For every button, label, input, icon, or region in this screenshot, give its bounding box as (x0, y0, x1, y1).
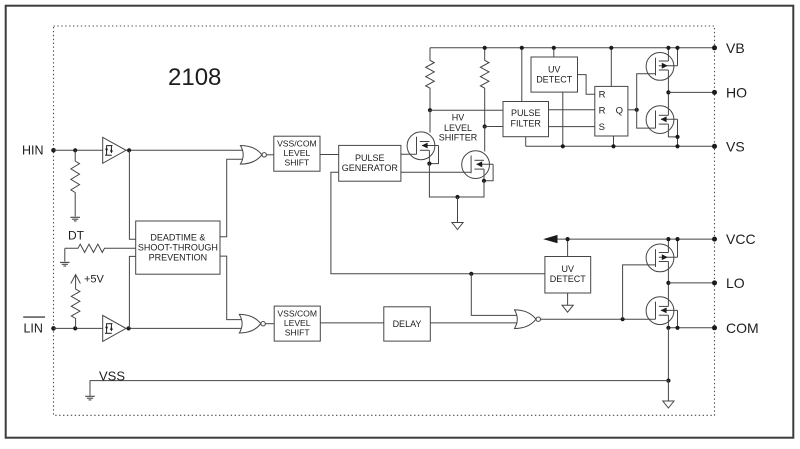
wire pulse filter to VS rail (525, 137, 527, 147)
wire Q1 drain (429, 110, 431, 132)
svg-text:+5V: +5V (84, 274, 105, 286)
junction LIN buffer output node (127, 326, 131, 330)
wire COM to VSS junction (667, 328, 669, 381)
junction Q1 source node (427, 162, 431, 166)
wire DT ground stub (64, 248, 66, 261)
wire pulse filter to latch S (549, 126, 595, 128)
ground (DT) (60, 262, 70, 266)
junction HIN buffer output node (127, 148, 131, 152)
wire common source ground stem (457, 197, 459, 223)
wire HO output (668, 91, 714, 93)
ground (UV detect low side) (562, 305, 573, 312)
node LO terminal dot (712, 280, 717, 285)
block UV DETECT (low side) (545, 257, 591, 294)
junction Q2 source node (482, 179, 486, 183)
wire UV detect output to latch R (578, 75, 595, 95)
svg-text:R: R (599, 105, 606, 116)
ground (VSS) (85, 396, 95, 400)
junction common source (455, 195, 459, 199)
wire VSS rail (90, 381, 668, 396)
wire latch bottom to VS rail (613, 136, 615, 146)
latch U3 (RS latch) (595, 86, 628, 136)
svg-text:DETECT: DETECT (536, 75, 573, 85)
svg-text:HIN: HIN (22, 144, 44, 158)
svg-text:DETECT: DETECT (550, 274, 587, 284)
part number label 2108 (168, 64, 221, 91)
wire COM rail (668, 327, 714, 329)
junction LIN pullup (73, 326, 77, 330)
label LIN (with overline) (23, 317, 45, 335)
svg-text:DELAY: DELAY (393, 319, 422, 329)
junction node HO (666, 90, 670, 94)
svg-text:LEVEL: LEVEL (284, 148, 311, 158)
junction NOR3 output node (621, 317, 625, 321)
NOR gate G2 (low side) (239, 314, 265, 333)
wire level-shift 2 to delay (320, 322, 384, 324)
wire Q3 body to VB (677, 48, 679, 66)
wire Q4 source and body to VS (668, 119, 677, 146)
junction Q4 source node (675, 135, 679, 139)
svg-text:SHIFT: SHIFT (284, 157, 310, 167)
svg-text:VS: VS (726, 138, 745, 154)
junction COM-Q6 body (675, 326, 679, 330)
label VSS (99, 368, 125, 383)
ground (HIN pulldown) (70, 217, 80, 221)
wire COM ground stem (667, 381, 669, 401)
svg-text:GENERATOR: GENERATOR (342, 163, 399, 173)
svg-text:VSS: VSS (99, 368, 125, 383)
svg-text:VCC: VCC (726, 231, 756, 247)
transistor Q4 (HO pull-down, n-channel) (646, 106, 677, 134)
transistor Q6 (LO pull-down, n-channel) (646, 297, 677, 325)
node COM terminal dot (712, 325, 717, 330)
node HIN terminal dot (51, 148, 56, 153)
wire LO output (668, 282, 714, 284)
block DELAY (384, 307, 431, 341)
block PULSE FILTER (503, 102, 549, 137)
wire deadtime lower output to NOR2 (220, 256, 243, 320)
wire Q to high-side P gate (637, 74, 656, 110)
node HO terminal dot (712, 90, 717, 95)
svg-text:Q: Q (616, 105, 623, 116)
transistor Q1 (HV level shifter left) (407, 132, 438, 160)
wire LIN buffer output to NOR gate (126, 327, 243, 329)
block VSS/COM LEVEL SHIFT (low side) (274, 306, 320, 341)
block VSS/COM LEVEL SHIFT (high side) (274, 136, 320, 171)
junction VCC-UV detect (566, 237, 570, 241)
junction VCC-Q5 source (666, 237, 670, 241)
junction node Q (635, 108, 639, 112)
wire VCC to UV detect 2 (567, 239, 569, 256)
junction VB-pulse filter (520, 46, 524, 50)
svg-text:FILTER: FILTER (511, 119, 542, 129)
svg-text:COM: COM (726, 320, 759, 336)
op-amp U1 schmitt buffer HIN (103, 137, 126, 163)
svg-text:DT: DT (68, 228, 85, 242)
wire Q6 drain to LO (667, 283, 669, 307)
resistor HIN pulldown (71, 150, 80, 216)
resistor DT (65, 244, 136, 252)
wire UV detect 2 ground stem (567, 293, 569, 305)
wire Q4 drain to HO (667, 92, 669, 115)
junction HV right node (483, 124, 487, 128)
junction VS-latch (611, 144, 615, 148)
wire LIN input (54, 327, 103, 329)
wire HIN buffer output to NOR gate (126, 149, 244, 151)
ground (HV level shifter) (452, 223, 463, 230)
svg-text:UV: UV (562, 264, 575, 274)
wire Q3 source to VB (667, 48, 669, 61)
op-amp U2 schmitt buffer LIN (103, 315, 126, 341)
svg-text:LO: LO (726, 275, 745, 291)
node LIN terminal dot (51, 326, 56, 331)
wire level-shift to pulse generator (320, 154, 339, 156)
svg-text:HO: HO (726, 84, 747, 100)
wire LIN node up to deadtime block (129, 256, 135, 328)
wire VB rail to pulse filter (521, 48, 523, 102)
IC boundary (dotted) (54, 26, 715, 415)
svg-text:2108: 2108 (168, 64, 221, 91)
wire deadtime upper output to NOR1 (220, 159, 244, 236)
wire pulse generator output to Q1 gate (401, 153, 417, 155)
junction COM-Q6 source (666, 326, 670, 330)
svg-text:HV: HV (452, 113, 465, 123)
wire Q2 source and body (484, 164, 493, 181)
node VS terminal dot (712, 144, 717, 149)
block UV DETECT (high side) (531, 57, 578, 92)
label +5V (84, 274, 105, 286)
label DT (68, 228, 85, 242)
wire NOR1 output (266, 154, 273, 156)
wire Q5 source to VCC (667, 239, 669, 252)
junction COM-VSS (666, 379, 670, 383)
svg-text:VB: VB (726, 40, 745, 56)
wire pulse generator output to Q2 gate (401, 171, 471, 173)
wire VB rail to UV detect (553, 48, 555, 57)
label LO (726, 275, 745, 291)
junction VS-UV detect (561, 144, 565, 148)
wire Q to high-side N gate (637, 110, 656, 128)
wire VCC rail (545, 238, 715, 240)
wire VS rail (526, 145, 715, 147)
wire Q3 drain to HO (667, 70, 669, 92)
block DEADTIME & SHOOT-THROUGH PREVENTION (136, 221, 220, 274)
resistor LIN pullup to +5V (71, 288, 80, 328)
svg-text:S: S (599, 122, 605, 133)
node VB terminal dot (712, 45, 717, 50)
wire VB rail to latch (610, 48, 612, 87)
junction VB-Q3 source (666, 46, 670, 50)
wire UV detect feedback to pulse generator (331, 172, 545, 273)
svg-text:VSS/COM: VSS/COM (277, 138, 317, 148)
wire UV detect bottom to VS rail (562, 92, 564, 146)
wire UV feedback to NOR3 (471, 274, 517, 316)
junction VB-latch (609, 46, 613, 50)
label COM (726, 320, 759, 336)
svg-text:SHIFT: SHIFT (285, 327, 311, 337)
junction VB-Q3 body (675, 46, 679, 50)
junction VS-Q4 (675, 144, 679, 148)
block PULSE GENERATOR (339, 145, 401, 181)
wire HIN input (54, 149, 103, 151)
wire NOR3 output to gates (541, 318, 656, 320)
label VS (726, 138, 745, 154)
resistor HV left (426, 48, 435, 110)
wire Q2 drain (484, 127, 486, 152)
svg-text:PULSE: PULSE (511, 108, 541, 118)
junction HIN pulldown (73, 148, 77, 152)
transistor Q5 (LO pull-up, p-channel) (646, 244, 677, 272)
wire pulse filter to latch R (549, 109, 595, 111)
wire level shifter common source rail (429, 164, 484, 197)
wire Q1 source and body (429, 146, 438, 164)
wire Q5 body to VCC (677, 239, 679, 257)
label VB (726, 40, 745, 56)
ground (COM) (663, 401, 674, 408)
svg-text:PREVENTION: PREVENTION (149, 252, 208, 262)
wire Q5 drain to LO (667, 262, 669, 283)
junction VCC-Q5 body (675, 237, 679, 241)
arrow VCC feed (543, 235, 557, 243)
label HV LEVEL SHIFTER (439, 113, 478, 143)
node VCC terminal dot (712, 237, 717, 242)
svg-text:UV: UV (548, 65, 561, 75)
resistor HV right (480, 48, 489, 127)
junction HV left node (428, 108, 432, 112)
transistor Q3 (HO pull-up, p-channel) (646, 53, 677, 81)
wire NOR3 output to low-side P gate (623, 265, 656, 319)
svg-text:LEVEL: LEVEL (444, 123, 472, 133)
svg-text:R: R (599, 90, 606, 101)
junction VB-UV detect (552, 46, 556, 50)
svg-text:PULSE: PULSE (355, 153, 385, 163)
svg-text:SHOOT-THROUGH: SHOOT-THROUGH (138, 243, 218, 253)
wire HIN node down to deadtime block (129, 150, 135, 239)
label HO (726, 84, 747, 100)
wire latch Q output (628, 109, 637, 111)
svg-text:DEADTIME &: DEADTIME & (150, 233, 205, 243)
svg-text:SHIFTER: SHIFTER (439, 133, 478, 143)
junction UV feedback node (469, 272, 473, 276)
wire Q6 source and body to COM (668, 310, 677, 327)
wire HV left node to pulse filter (430, 109, 503, 111)
label HIN (22, 144, 44, 158)
junction VB rail at right resistor (483, 46, 487, 50)
svg-text:LEVEL: LEVEL (284, 318, 311, 328)
transistor Q2 (HV level shifter right) (462, 151, 493, 179)
NOR gate G3 (output stage) (515, 310, 541, 329)
label VCC (726, 231, 756, 247)
wire VB rail (430, 47, 715, 49)
supply +5V arrow (71, 275, 81, 289)
svg-text:LIN: LIN (23, 321, 42, 335)
wire HV right node to pulse filter (485, 126, 503, 128)
junction node LO (666, 281, 670, 285)
wire NOR2 output (265, 323, 274, 325)
wire delay to NOR3 (430, 322, 517, 324)
svg-text:VSS/COM: VSS/COM (277, 308, 317, 318)
NOR gate G1 (high side) (240, 146, 266, 165)
